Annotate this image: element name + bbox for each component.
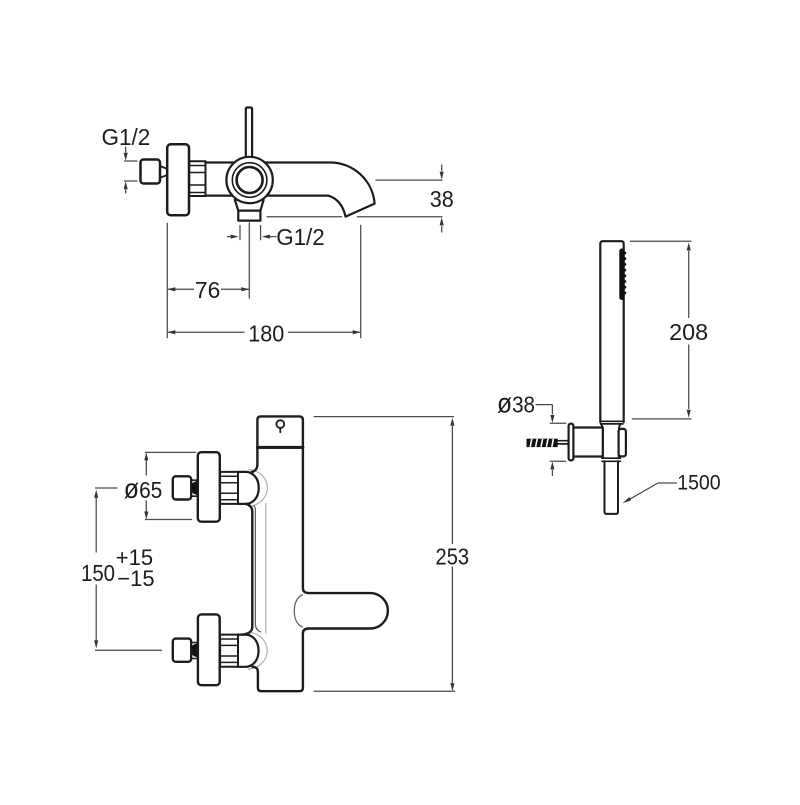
svg-text:G1/2: G1/2 (276, 224, 325, 250)
svg-text:1500: 1500 (677, 471, 721, 494)
svg-text:ø38: ø38 (497, 388, 535, 419)
svg-text:180: 180 (248, 321, 284, 347)
svg-text:76: 76 (195, 277, 220, 303)
svg-text:253: 253 (436, 544, 470, 570)
svg-text:150: 150 (81, 560, 115, 586)
svg-text:208: 208 (669, 319, 708, 345)
svg-text:ø65: ø65 (124, 473, 162, 504)
svg-text:38: 38 (430, 186, 454, 212)
svg-text:G1/2: G1/2 (102, 124, 151, 150)
svg-text:−15: −15 (117, 566, 154, 591)
